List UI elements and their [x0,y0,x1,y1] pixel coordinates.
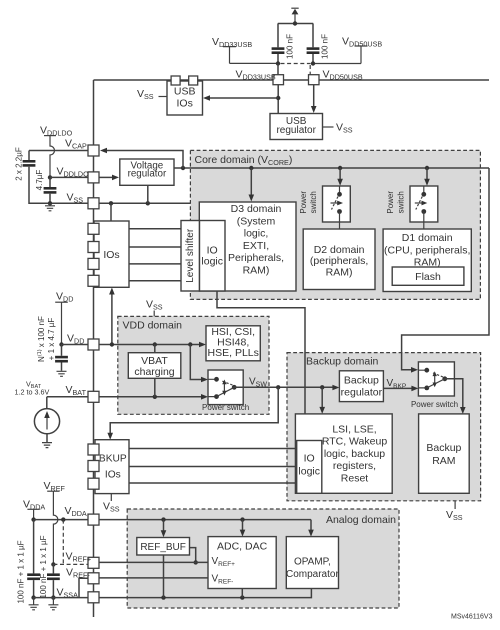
wire regulator ground [147,185,149,203]
wire VSSA rail analog [99,589,311,598]
ADC DAC box [208,537,276,589]
USB IOs box [167,81,203,115]
node top junction [293,21,297,25]
pin VREF- [88,573,99,584]
pin BKUP 3 [88,478,99,489]
wire BKUP IOs to backup IO logic 2 [129,466,297,468]
label power switch 2 [386,191,405,214]
svg-text:D1 domain: D1 domain [402,232,453,244]
pin USB IOs 1 [171,76,180,85]
svg-text:100 nF + 1 x 1 µF: 100 nF + 1 x 1 µF [39,535,48,598]
svg-text:MSv46116V3: MSv46116V3 [451,614,493,621]
Flash box [392,267,464,285]
wire VDDA feed into analog domain [99,519,311,521]
svg-text:IO: IO [207,245,218,257]
svg-text:(System: (System [237,215,276,227]
svg-text:Reset: Reset [341,473,369,485]
capacitor 2x2.2uF [15,147,50,203]
capacitor 4.7uF [35,170,56,204]
IO logic box backup [297,441,322,494]
label VSS at USB regulator [323,122,353,135]
wire VBAT rail into domain to power switch lower input [99,394,208,400]
node VSSA REF_BUF ground [161,595,165,599]
pin BKUP 1 [88,444,99,455]
wire backup switch output to Backup RAM [445,379,466,414]
wire REF_BUF ground [163,555,165,598]
pin VBAT [88,391,99,402]
wire VDD50USB pin drop arrow into USB regulator [311,85,317,113]
wire into VBAT charging top [154,345,156,353]
VBAT charging box [128,353,181,379]
power switch 1 box [323,186,351,229]
wire VDDLDO rail [50,176,88,178]
svg-text:D3 domain: D3 domain [231,203,282,215]
VDD domain box [118,316,269,414]
svg-text:Level shifter: Level shifter [185,228,196,283]
svg-text:logic,: logic, [244,228,269,240]
ground below left cap [29,598,39,610]
USB regulator box [270,114,323,140]
node cap right bottom [311,61,315,65]
svg-text:regulator: regulator [276,125,316,136]
D1 domain box [383,229,471,292]
pin VSS [88,198,99,209]
svg-text:REF_BUF: REF_BUF [140,542,186,553]
wire VDD drop [61,302,63,344]
capacitor 100nF right [307,24,330,64]
node VDDA dashed branch [61,517,65,521]
analog domain box [127,509,399,608]
svg-text:EXTI,: EXTI, [243,240,269,252]
wire VCORE exit route to backup power switch [402,168,489,373]
wire left cap to pin [277,64,279,75]
wire top cap rail [278,23,313,25]
wire ADC ground [241,589,243,598]
svg-text:(peripherals,: (peripherals, [310,255,368,267]
node VSSA ADC ground [240,595,244,599]
svg-text:Power: Power [299,191,308,214]
node analog feed REF_BUF [161,517,165,521]
wire regulator output to VCORE rail [174,167,489,169]
supply label VREF external [44,480,66,493]
svg-text:2 x 2.2µF: 2 x 2.2µF [15,147,24,181]
pin VSSA [88,592,99,603]
current source VBAT [34,397,59,442]
wire arrow VCORE into power switch 2 [424,168,430,186]
supply label VDDLDO [40,125,73,138]
wire arrow into ADC [240,520,246,537]
svg-text:Power: Power [386,191,395,214]
pin VDD50USB [309,75,320,85]
supply label VDD [55,291,73,304]
wire arrow VCORE into D3 [249,168,255,202]
pin VDD33USB [273,75,284,85]
capacitor N x 100nF + 1 x 4.7uF [37,316,68,371]
node REF_BUF join [194,560,198,564]
IOs box [94,221,129,287]
wire left bus vertical [93,80,95,617]
capacitor 100nF+1uF left [17,520,40,604]
wire VSS to IOs box [110,203,112,221]
svg-text:logic: logic [201,256,223,268]
node VSS branch regulator [146,201,150,205]
pin VREF+ [88,557,99,568]
svg-text:Backup: Backup [344,375,379,387]
node VSW lsi branch [320,385,324,389]
wire IOs to level shifter 3 [129,263,181,265]
node VREF dashed branch [51,562,55,566]
svg-text:1.2 to 3.6V: 1.2 to 3.6V [15,388,50,397]
node VCORE D3 branch [249,166,253,170]
svg-text:Power switch: Power switch [202,403,249,412]
wire VDD rail into domain with arrow to HSI [99,342,206,348]
node regulator output branch [181,166,185,170]
supply label VBAT external [15,380,50,397]
wire BKUP IOs to backup IO logic 3 [129,482,297,484]
svg-text:switch: switch [396,191,405,213]
node VSSA cap right [51,595,55,599]
pin IO 3 [88,258,99,269]
svg-text:BKUP: BKUP [99,454,127,465]
svg-text:(CPU, peripherals,: (CPU, peripherals, [384,244,470,256]
node VSW bkup-ios branch [276,385,280,389]
wire arrow into VCAP pin [100,148,183,168]
pin BKUP 2 [88,461,99,472]
svg-text:100 nF + 1 x 1 µF: 100 nF + 1 x 1 µF [17,540,26,603]
node VSS cap junction [48,201,52,205]
wire VREF- line to ADC [99,577,208,579]
svg-text:RTC, Wakeup: RTC, Wakeup [322,436,388,448]
label power switch 1 [299,191,318,214]
backup regulator box [339,371,383,402]
wire VDD rail [62,344,89,346]
node VDD switch branch [188,342,192,346]
label VSS at USB IOs [137,88,167,101]
svg-text:charging: charging [134,366,174,378]
svg-text:registers,: registers, [333,460,376,472]
wire dashed cap interconnect [281,63,311,65]
wire VSS rail left segment [50,202,88,204]
capacitor 100nF left [272,24,295,64]
supply label VDDA external [23,498,45,511]
svg-text:Peripherals,: Peripherals, [228,252,284,264]
backup domain box [287,353,481,501]
svg-text:Power switch: Power switch [411,400,458,409]
svg-text:+ 1 x 4.7 µF: + 1 x 4.7 µF [47,318,56,361]
svg-text:IOs: IOs [177,98,193,110]
svg-text:switch: switch [309,191,318,213]
label VSS below BKUP IOs [103,494,120,514]
wire VSSA rail left [34,597,88,599]
wire dashed VREF to VREF+ pin [53,563,88,565]
wire arrow into USB IOs [203,95,278,101]
node VDD junction [59,342,63,346]
wire VREF drop with hop over VDDA rail [53,491,58,564]
svg-text:IOs: IOs [105,470,121,481]
node VSSA cap left [31,595,35,599]
wire VBAT charging bottom stub [154,378,156,397]
node VDD IOs branch [110,342,114,346]
node analog feed ADC [240,517,244,521]
wire VBAT rail [47,396,88,398]
svg-text:regulator: regulator [128,168,167,179]
power switch box backup [418,362,454,396]
node VDD33USB branch [276,96,280,100]
wire IOs to level shifter 4 [129,280,181,282]
pin IO 4 [88,275,99,286]
node VDDA junction [31,517,35,521]
svg-text:Backup domain: Backup domain [306,356,379,368]
wire VREF+ line to ADC [99,561,208,563]
svg-text:Analog domain: Analog domain [326,514,396,526]
ground below VDD cap [57,371,67,376]
svg-text:RAM: RAM [432,455,455,467]
svg-text:regulator: regulator [341,387,383,399]
wire IOs to level shifter 1 [129,228,181,230]
wire arrow into REF_BUF [161,520,167,538]
IO logic box core [200,221,226,292]
wire dashed drop to VDD50USB pin [309,65,311,75]
Backup RAM box [419,414,470,493]
svg-text:100 nF: 100 nF [321,34,330,59]
HSI CSI box [206,326,260,361]
svg-text:LSI, LSE,: LSI, LSE, [332,423,376,435]
supply label VDD33USB top [212,36,277,63]
wire VBKP to backup power switch [383,386,418,392]
BKUP IOs box [95,440,129,494]
svg-text:USB: USB [174,86,196,98]
pin USB IOs 2 [189,76,198,85]
power switch box VDD domain [208,370,243,405]
svg-text:VDD domain: VDD domain [123,320,183,332]
wire IO logic down to backup IO logic [217,291,305,441]
OPAMP box [286,537,339,589]
pin IO 1 [88,223,99,234]
wire IOs to level shifter 2 [129,246,181,248]
wire VDDA drop [33,509,35,519]
core domain box [190,150,480,299]
D2 domain box [303,229,375,290]
power supply arrow symbol top [291,8,298,23]
svg-text:logic: logic [298,466,320,478]
wire VDDLDO drop with hop over VCAP line [50,136,55,178]
voltage regulator box [120,159,174,185]
label VSS at VDD domain [146,299,163,317]
wire VSW arrow into LSI box [319,387,325,414]
wire VDD branch to power switch upper input [190,345,208,383]
svg-text:Flash: Flash [415,271,441,283]
REF_BUF box [137,538,190,556]
node VDD vbat-charging branch [153,342,157,346]
LSI LSE box [295,414,392,493]
wire arrow VDD into IOs bottom [109,288,115,345]
pin VDDA [88,514,99,525]
wire dashed VDDA to VREF+ [62,520,64,565]
svg-text:Comparator: Comparator [286,569,339,580]
svg-text:RAM): RAM) [243,265,270,277]
wire VCAP rail [29,150,88,152]
svg-text:4.7µF: 4.7µF [35,170,44,191]
D3 domain box [199,202,296,291]
wire VREF- loop to VSSA rail [79,578,88,597]
pin VCAP [88,145,99,156]
wire arrow VDDLDO into regulator [99,175,119,181]
pin VDDLDO [88,172,99,183]
svg-text:HSE, PLLs: HSE, PLLs [208,347,259,359]
label VSS below backup domain [446,501,463,522]
svg-text:D2 domain: D2 domain [314,244,365,256]
svg-text:Backup: Backup [426,442,461,454]
node VCORE PS2 branch [425,166,429,170]
capacitor 100nF+1uF right [39,535,60,598]
wire VSW to BKUP IOs [107,387,278,439]
wire BKUP IOs to backup IO logic 1 [129,448,297,450]
svg-text:RAM): RAM) [326,266,353,278]
svg-text:IO: IO [304,453,315,465]
node VCORE PS1 branch [338,166,342,170]
wire REF_BUF output to VREF+ line [190,548,196,563]
power switch 2 box [410,186,438,229]
node VSS branch IOs [109,201,113,205]
svg-text:OPAMP,: OPAMP, [294,556,331,567]
level shifter box [181,221,200,292]
ground below right cap [48,598,58,610]
node VDDLDO junction [48,175,52,179]
ground below caps [45,203,55,211]
pin IO 2 [88,242,99,253]
wire main top bus [94,79,490,81]
node VBAT charging bottom [153,395,157,399]
node cap left bottom [276,61,280,65]
wire VSS rail [99,202,190,204]
wire VDDA rail [34,519,88,521]
svg-text:IOs: IOs [103,249,119,261]
wire VSW rail [234,385,339,391]
wire VDD33USB pin drop [277,85,279,114]
ground below current source [42,443,52,448]
supply label VDD50USB top [314,36,382,64]
svg-text:logic, backup: logic, backup [324,448,385,460]
wire arrow VCORE into power switch 1 [337,168,343,186]
svg-text:100 nF: 100 nF [286,34,295,59]
wire arrow into OPAMP [308,520,314,537]
svg-text:ADC, DAC: ADC, DAC [217,541,268,553]
pin VDD [88,339,99,350]
